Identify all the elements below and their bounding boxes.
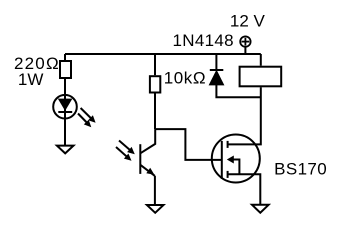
svg-text:1N4148: 1N4148 [173,31,234,50]
svg-text:12 V: 12 V [230,11,266,30]
svg-text:10kΩ: 10kΩ [164,69,207,88]
svg-text:BS170: BS170 [274,160,327,179]
svg-text:1W: 1W [18,70,44,89]
